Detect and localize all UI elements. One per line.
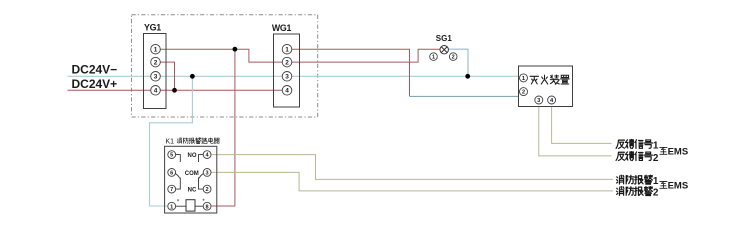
wire relay K1 pin3 to fire-alarm 2 (olive): [211, 172, 613, 191]
U1 pin 4: [548, 96, 556, 104]
svg-text:1: 1: [653, 141, 659, 152]
svg-text:2: 2: [452, 55, 455, 61]
SG1 pin 2: [449, 53, 457, 61]
YG1 pin 1: [151, 44, 161, 54]
wire lamp SG1 pin2 to DC24V- (blue): [448, 49, 468, 76]
wire branch down to U1 pin2 (red): [409, 62, 411, 96]
svg-text:EMS: EMS: [668, 147, 689, 158]
K1 pin 1: [168, 202, 176, 210]
wire to U1 pin2 (teal): [410, 95, 520, 97]
K1 pin 6: [168, 169, 176, 177]
svg-text:7: 7: [170, 187, 173, 193]
wire DC24V- bus (blue): [68, 75, 520, 77]
lamp SG1: [430, 34, 457, 61]
net label 反馈信号2: [616, 152, 659, 164]
svg-text:WG1: WG1: [272, 23, 292, 33]
svg-text:NC: NC: [188, 188, 197, 194]
net label 消防报警2: [617, 187, 659, 199]
SG1 pin 1: [430, 53, 438, 61]
svg-text:DC24V+: DC24V+: [72, 77, 118, 91]
NO contact stubs: [176, 155, 204, 162]
K1 pin 8: [203, 202, 211, 210]
svg-text:5: 5: [170, 153, 173, 159]
WG1 pin 2: [282, 57, 292, 67]
svg-text:1: 1: [154, 47, 158, 54]
svg-text:2: 2: [154, 59, 158, 66]
svg-text:8: 8: [206, 204, 209, 210]
svg-text:EMS: EMS: [668, 181, 689, 192]
svg-text:3: 3: [285, 74, 289, 81]
junction dot on DC24V+ at YG1 pin2 drop: [172, 88, 177, 93]
coil: [186, 200, 195, 211]
U1 pin 2: [520, 88, 528, 96]
svg-text:1: 1: [653, 176, 659, 187]
wire YG1 pin2 to DC24V+ (red): [160, 62, 174, 90]
wire WG1 pin2 to lamp SG1 pin1 (red): [292, 49, 441, 62]
connector YG1: [144, 22, 167, 108]
svg-text:2: 2: [522, 90, 525, 96]
WG1 pin 1: [282, 44, 292, 54]
U1 pin 1: [520, 74, 528, 82]
fire suppression device U1 灭火装置: [519, 66, 573, 107]
K1 pin 4: [203, 151, 211, 159]
svg-text:2: 2: [653, 153, 659, 164]
svg-text:2: 2: [653, 188, 659, 199]
svg-text:K1: K1: [166, 139, 175, 146]
svg-text:4: 4: [285, 88, 289, 95]
wire node to relay K1 pin8 (red): [211, 49, 235, 206]
K1 pin 7: [168, 185, 176, 193]
svg-text:1: 1: [432, 55, 435, 61]
svg-text:4: 4: [154, 88, 158, 95]
svg-text:1: 1: [170, 204, 173, 210]
wire U1 pin3 to feedback 2 (olive): [539, 107, 612, 156]
K1 pin 2: [203, 185, 211, 193]
svg-text:3: 3: [154, 74, 158, 81]
net label 反馈信号1: [616, 140, 659, 152]
wire WG1 pin1 out (red): [292, 49, 410, 62]
connector WG1: [272, 23, 300, 107]
svg-text:1: 1: [285, 47, 289, 54]
relay body: [165, 146, 217, 213]
enclosure dashed box: [132, 15, 318, 117]
YG1 pin 3: [151, 72, 161, 82]
junction dot on DC24V- at SG1 drop: [465, 74, 470, 79]
WG1 pin 3: [282, 72, 292, 82]
svg-text:2: 2: [206, 187, 209, 193]
relay K1 fire alarm relay: [165, 138, 220, 213]
wire U1 pin4 to feedback 1 (olive): [552, 107, 612, 144]
lamp symbol circle-X: [440, 46, 448, 54]
label 至EMS (feedback pair): [660, 147, 688, 158]
label 至EMS (fire alarm pair): [660, 181, 688, 192]
YG1 pin 4: [151, 86, 161, 96]
wire DC24V+ bus (red): [68, 89, 283, 91]
svg-text:6: 6: [170, 171, 173, 177]
K1 pin 3: [203, 169, 211, 177]
wire YG1 pin1 to WG1 pin2 (red): [160, 49, 282, 62]
WG1 pin 4: [282, 86, 292, 96]
svg-text:COM: COM: [185, 171, 199, 177]
U1 pin 3: [535, 96, 543, 104]
junction dot on YG1 pin1 wire: [233, 47, 238, 52]
YG1 pin 2: [151, 57, 161, 67]
COM moving arms: [175, 174, 203, 179]
net label 消防报警1: [617, 175, 659, 187]
junction dot on DC24V- at relay drop: [190, 74, 195, 79]
svg-text:3: 3: [206, 171, 209, 177]
svg-text:YG1: YG1: [144, 22, 161, 32]
NC contact stubs: [176, 178, 204, 190]
svg-text:SG1: SG1: [436, 34, 453, 43]
svg-text:NO: NO: [188, 153, 197, 159]
svg-text:DC24V−: DC24V−: [72, 63, 118, 77]
svg-text:2: 2: [285, 59, 289, 66]
wire DC24V- to relay K1 pin1 (blue): [150, 76, 193, 206]
wire relay K1 pin4 to fire-alarm 1 (olive): [211, 155, 613, 180]
label 灭火装置: [530, 76, 538, 84]
K1 pin 5: [168, 151, 176, 159]
